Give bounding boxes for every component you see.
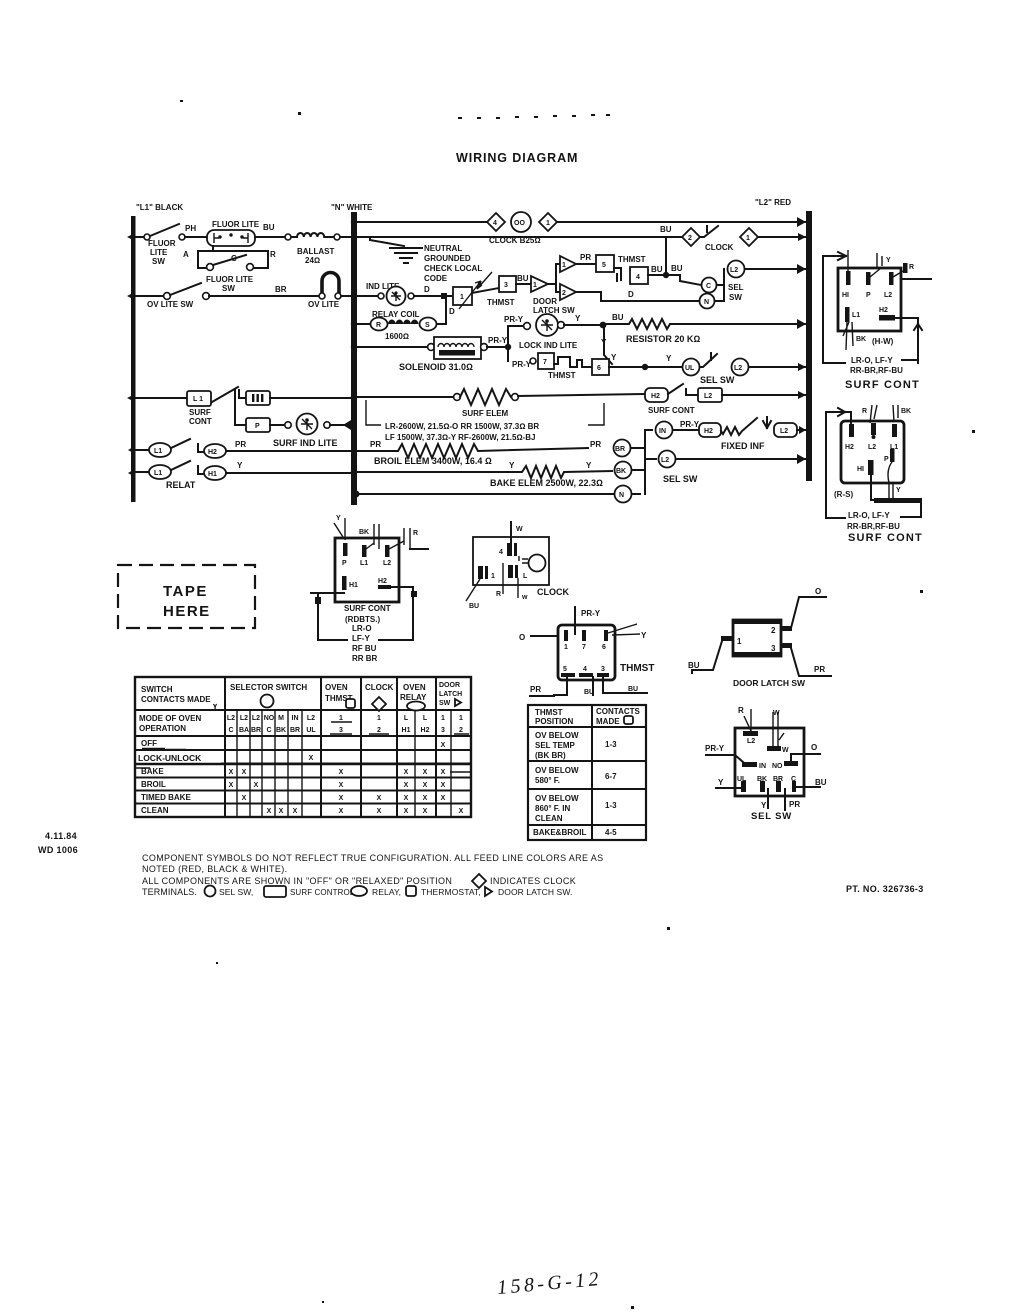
box surf cont rdbts (335, 538, 399, 602)
wire solenoid row from N bus (357, 346, 428, 348)
svg-text:L1: L1 (154, 448, 162, 455)
svg-text:L2: L2 (383, 560, 391, 567)
svg-text:W: W (516, 526, 523, 533)
svg-text:6: 6 (597, 365, 601, 372)
svg-text:SEL SW,: SEL SW, (219, 887, 253, 897)
svg-text:S: S (425, 322, 430, 329)
wire BU junction up to clock diamond 2 (665, 238, 667, 275)
table thmst position (528, 705, 646, 840)
svg-text:TIMED BAKE: TIMED BAKE (141, 793, 191, 802)
svg-text:OVEN: OVEN (325, 683, 348, 692)
wire BU to sel sw C (680, 275, 701, 285)
svg-text:C: C (706, 283, 711, 290)
svg-text:"N" WHITE: "N" WHITE (331, 203, 373, 212)
wire P leads (888, 462, 893, 498)
svg-text:HI: HI (857, 466, 864, 473)
svg-text:NO: NO (264, 715, 275, 722)
svg-text:BR: BR (290, 727, 300, 734)
svg-text:L2: L2 (704, 393, 712, 400)
svg-text:L2: L2 (240, 715, 248, 722)
svg-text:O: O (519, 633, 525, 642)
wire L1 leads down (843, 322, 853, 350)
svg-text:CONTACTS MADE: CONTACTS MADE (141, 695, 211, 704)
svg-text:X: X (293, 808, 298, 815)
pin 1 (564, 630, 568, 641)
svg-text:MADE: MADE (596, 717, 620, 726)
svg-text:1-3: 1-3 (605, 740, 617, 749)
svg-text:O: O (811, 743, 817, 752)
wire broil row from L1 relay (135, 449, 148, 451)
svg-text:R: R (909, 264, 914, 271)
inductor BALLAST 24ohm (292, 236, 297, 238)
svg-text:3: 3 (441, 727, 445, 734)
svg-text:FLUOR LITE: FLUOR LITE (206, 275, 254, 284)
clock pictorial (466, 522, 569, 610)
svg-text:PR-Y: PR-Y (488, 336, 508, 345)
wire P to surf ind lite (270, 424, 285, 426)
svg-text:H2: H2 (208, 449, 217, 456)
svg-text:X: X (423, 795, 428, 802)
svg-text:24Ω: 24Ω (305, 256, 320, 265)
svg-text:SURF CONT: SURF CONT (848, 532, 923, 544)
svg-text:COMPONENT SYMBOLS DO NOT REFLE: COMPONENT SYMBOLS DO NOT REFLECT TRUE CO… (142, 853, 603, 863)
svg-text:DOOR: DOOR (533, 297, 557, 306)
resistor SURF ELEM (454, 394, 461, 401)
svg-text:BK: BK (276, 727, 286, 734)
svg-text:BU: BU (469, 603, 479, 610)
surf control unit R-S (826, 405, 923, 544)
svg-text:1: 1 (533, 282, 537, 289)
svg-text:BROIL ELEM 3400W, 16.4 Ω: BROIL ELEM 3400W, 16.4 Ω (374, 456, 492, 466)
thermostat contact box 5 (596, 255, 614, 272)
relay contact L1 (surf cont) (187, 391, 211, 406)
pin 6 (604, 630, 608, 641)
sel sw contact BR (614, 440, 631, 457)
thermostat contact box 3 (499, 276, 516, 292)
wire ind-lite row from N bus (357, 295, 377, 297)
svg-text:OO: OO (514, 220, 525, 227)
svg-text:Y: Y (666, 354, 672, 363)
wire Y lead (870, 253, 882, 277)
svg-text:1: 1 (562, 262, 566, 269)
switch clock contact (700, 226, 718, 237)
wire to lock ind lite (508, 325, 523, 327)
stray dotted marks top (180, 100, 975, 1309)
svg-text:H1: H1 (349, 582, 358, 589)
svg-text:2: 2 (459, 727, 463, 734)
svg-text:PR-Y: PR-Y (705, 744, 725, 753)
svg-text:"L2" RED: "L2" RED (755, 198, 791, 207)
switch blade (212, 387, 238, 402)
svg-text:H1: H1 (208, 471, 217, 478)
svg-text:SOLENOID 31.0Ω: SOLENOID 31.0Ω (399, 362, 473, 372)
svg-text:1-3: 1-3 (605, 801, 617, 810)
svg-text:WIRING DIAGRAM: WIRING DIAGRAM (456, 151, 578, 165)
wire to lamp (185, 236, 207, 238)
door latch switch pictorial (688, 587, 831, 688)
sel sw contact L2 (728, 261, 745, 278)
wire HI lead down and right (871, 475, 921, 517)
svg-text:X: X (229, 782, 234, 789)
wire riser to III and P (235, 390, 246, 425)
svg-text:RR BR: RR BR (352, 654, 378, 663)
svg-text:X: X (423, 808, 428, 815)
solenoid coil 31 ohm (428, 344, 435, 351)
wire triangle2 to N contact (576, 292, 699, 301)
svg-text:3: 3 (771, 644, 776, 653)
svg-text:POSITION: POSITION (535, 717, 573, 726)
switch FLUOR LITE SW (second, lamp bypass) (198, 246, 268, 268)
svg-text:SEL SW: SEL SW (751, 811, 792, 822)
svg-text:PR: PR (530, 685, 541, 694)
svg-text:BU: BU (517, 274, 529, 283)
symbol door latch triangle (485, 887, 492, 896)
svg-text:X: X (423, 769, 428, 776)
switch OV LITE SW (164, 293, 171, 300)
wire Y vertical from BU junction (604, 326, 612, 364)
svg-text:P: P (884, 456, 889, 463)
svg-text:6: 6 (602, 644, 606, 651)
svg-text:CLOCK: CLOCK (705, 243, 734, 252)
wire solenoid to junction (487, 346, 508, 348)
svg-text:4: 4 (499, 549, 503, 556)
svg-text:X: X (377, 795, 382, 802)
svg-text:3: 3 (339, 727, 343, 734)
svg-text:CONT: CONT (189, 417, 212, 426)
symbol clock diamond (472, 874, 486, 888)
relay contact H1 (204, 466, 226, 480)
svg-text:INDICATES CLOCK: INDICATES CLOCK (490, 876, 576, 886)
svg-text:SURF ELEM: SURF ELEM (462, 409, 509, 418)
svg-text:N: N (619, 492, 624, 499)
resistor BAKE ELEM (357, 466, 612, 478)
pin 1 lead (721, 636, 733, 641)
svg-text:SEL SW: SEL SW (663, 474, 698, 484)
svg-text:LF 1500W, 37.3Ω-Y RF-2600W: LF 1500W, 37.3Ω-Y RF-2600W, 21.5Ω-BJ (385, 433, 535, 442)
svg-text:P: P (866, 292, 871, 299)
svg-text:L2: L2 (661, 457, 669, 464)
svg-text:BR: BR (275, 285, 287, 294)
svg-text:LITE: LITE (150, 248, 168, 257)
svg-text:DOOR LATCH SW: DOOR LATCH SW (733, 678, 806, 688)
motor clock (double circle) (511, 212, 531, 232)
resistor RESISTOR 20 K (607, 319, 806, 329)
wire H2 top arrow bracket (826, 408, 851, 518)
svg-text:1: 1 (441, 715, 445, 722)
svg-text:FIXED INF: FIXED INF (721, 441, 765, 451)
sel sw contact C (702, 278, 717, 293)
relay contact L2 (686, 389, 698, 395)
pin L1 (892, 424, 897, 437)
svg-text:PR: PR (235, 440, 246, 449)
wire III to N bus (surf elem feed) (270, 397, 351, 399)
svg-text:BK: BK (856, 336, 866, 343)
svg-text:NOTED (RED, BLACK & WHITE).: NOTED (RED, BLACK & WHITE). (142, 864, 287, 874)
table frame (135, 677, 471, 817)
svg-text:WD 1006: WD 1006 (38, 845, 78, 855)
clock terminal diamond 1b (740, 228, 758, 246)
svg-text:BU: BU (688, 661, 700, 670)
contact link 7-6 (554, 357, 592, 367)
svg-text:1: 1 (460, 294, 464, 301)
svg-text:PT. NO. 326736-3: PT. NO. 326736-3 (846, 884, 924, 894)
pin H1 (342, 576, 347, 590)
svg-text:PR: PR (580, 253, 591, 262)
box door latch sw (733, 620, 781, 656)
wire to surf cont H2 (518, 394, 645, 396)
svg-text:BAKE ELEM 2500W, 22.3Ω: BAKE ELEM 2500W, 22.3Ω (490, 478, 603, 488)
svg-text:X: X (404, 795, 409, 802)
svg-text:ALL COMPONENTS ARE SHOWN IN ": ALL COMPONENTS ARE SHOWN IN "OFF" OR "RE… (142, 876, 452, 886)
pin L1 (845, 307, 850, 322)
wire bus N (middle vertical) (351, 212, 357, 505)
svg-text:X: X (441, 795, 446, 802)
svg-text:5: 5 (563, 666, 567, 673)
svg-text:1: 1 (564, 644, 568, 651)
svg-text:L2: L2 (747, 738, 755, 745)
resistor BROIL ELEM (357, 444, 588, 458)
svg-text:X: X (423, 782, 428, 789)
wire w lead (517, 578, 519, 598)
svg-text:L: L (523, 573, 528, 580)
svg-text:SURF CONT: SURF CONT (845, 379, 920, 391)
svg-text:X: X (309, 755, 314, 762)
pin L2 (871, 423, 876, 435)
wire to BU junction (564, 324, 603, 326)
svg-text:2: 2 (377, 727, 381, 734)
svg-text:2: 2 (771, 626, 776, 635)
svg-text:L2: L2 (227, 715, 235, 722)
pin 3 lead (781, 643, 792, 648)
pin L2 (889, 272, 894, 285)
wire L2 to bus (745, 268, 806, 270)
svg-text:D: D (449, 307, 455, 316)
svg-text:W: W (773, 710, 780, 717)
svg-text:R: R (862, 408, 867, 415)
svg-text:w: w (521, 594, 528, 601)
svg-text:L2: L2 (730, 267, 738, 274)
svg-text:580° F.: 580° F. (535, 776, 560, 785)
svg-text:OPERATION: OPERATION (139, 724, 186, 733)
sel sw contact BK (615, 462, 632, 479)
pin L2 with R lead (385, 545, 390, 557)
svg-text:OV BELOW: OV BELOW (535, 794, 579, 803)
svg-text:X: X (339, 782, 344, 789)
wire bus L2 (right vertical) (806, 211, 812, 481)
surf control (RDBTS) pictorial (311, 515, 428, 663)
svg-text:P: P (255, 423, 260, 430)
switch FLUOR LITE SW (first) (144, 234, 150, 240)
svg-text:1: 1 (491, 573, 495, 580)
svg-text:(H-W): (H-W) (872, 337, 894, 346)
sel sw contact N2 (615, 486, 632, 503)
svg-text:MODE OF OVEN: MODE OF OVEN (139, 714, 201, 723)
svg-text:L: L (404, 715, 409, 722)
wire left bracket with arrow (823, 252, 846, 363)
svg-text:PR-Y: PR-Y (581, 609, 601, 618)
svg-text:BR: BR (251, 727, 261, 734)
svg-text:FLUOR LITE: FLUOR LITE (212, 220, 260, 229)
svg-text:R: R (738, 706, 744, 715)
sel sw contact IN (656, 422, 673, 439)
selector switch pictorial (705, 706, 827, 822)
svg-text:IN: IN (759, 763, 766, 770)
wire surf-cont row from L1 bus (135, 397, 187, 399)
pin HI (868, 460, 874, 475)
svg-text:SURF: SURF (189, 408, 211, 417)
svg-text:LR-2600W, 21.5Ω-O RR 1500W,: LR-2600W, 21.5Ω-O RR 1500W, 37.3Ω BR (385, 422, 539, 431)
wire box1 to box3 (472, 288, 499, 293)
svg-text:L1: L1 (360, 560, 368, 567)
pin L (508, 565, 513, 578)
svg-text:CODE: CODE (424, 274, 448, 283)
svg-text:SW: SW (222, 284, 235, 293)
svg-text:SW: SW (152, 257, 165, 266)
pin P (866, 272, 871, 285)
svg-text:1: 1 (746, 235, 750, 242)
svg-text:DOOR: DOOR (439, 682, 460, 689)
svg-text:C: C (228, 727, 233, 734)
wire diamond to L2 bus (758, 236, 806, 238)
wire second row from N bus (357, 236, 682, 238)
wire PR lead bottom (784, 789, 786, 810)
switch sel sw blade (700, 353, 717, 367)
box thmst (558, 625, 615, 680)
svg-text:7: 7 (582, 644, 586, 651)
wire split to triangles (548, 264, 559, 292)
svg-text:Y: Y (761, 801, 767, 810)
wire neutral row to N contact (357, 493, 613, 495)
svg-text:BR: BR (615, 446, 625, 453)
switch blade (668, 384, 683, 394)
svg-text:RR-BR,RF-BU: RR-BR,RF-BU (847, 522, 900, 531)
clock terminal diamond 2 (682, 228, 700, 246)
svg-text:X: X (404, 769, 409, 776)
sel sw contact UL (683, 359, 700, 376)
svg-text:BU: BU (628, 686, 638, 693)
svg-text:X: X (377, 808, 382, 815)
svg-text:IN: IN (292, 715, 299, 722)
arrow down (763, 417, 771, 428)
svg-text:BU: BU (651, 265, 663, 274)
svg-text:3: 3 (504, 282, 508, 289)
pin 7 (582, 630, 586, 641)
svg-text:CONTACTS: CONTACTS (596, 707, 641, 716)
svg-text:DOOR LATCH SW.: DOOR LATCH SW. (498, 887, 572, 897)
svg-text:R: R (376, 322, 381, 329)
svg-text:RF BU: RF BU (352, 644, 377, 653)
svg-text:CLEAN: CLEAN (535, 814, 563, 823)
svg-text:1: 1 (459, 715, 463, 722)
svg-text:1: 1 (377, 715, 381, 722)
wire W lead (510, 522, 512, 555)
wire Y lead bottom (767, 789, 769, 808)
wire IN to H2 fixed inf (673, 429, 699, 431)
svg-text:FLUOR: FLUOR (148, 239, 176, 248)
svg-text:BK: BK (359, 529, 369, 536)
pin P (343, 543, 348, 556)
svg-text:P: P (342, 560, 347, 567)
svg-text:W: W (782, 747, 789, 754)
box surf cont (H-W) (838, 268, 901, 331)
svg-text:THMST: THMST (618, 255, 646, 264)
svg-text:H2: H2 (879, 307, 888, 314)
svg-text:BALLAST: BALLAST (297, 247, 334, 256)
wire BU lead (592, 677, 594, 695)
svg-text:H2: H2 (651, 393, 660, 400)
svg-text:X: X (441, 769, 446, 776)
svg-text:X: X (404, 808, 409, 815)
svg-text:7: 7 (543, 359, 547, 366)
pin L1 with BK lead (362, 545, 367, 557)
svg-text:LATCH: LATCH (439, 691, 462, 698)
switch blade (171, 439, 190, 448)
svg-text:SURF CONTROL,: SURF CONTROL, (290, 888, 357, 897)
wire to thmst box 1 (414, 295, 452, 297)
svg-text:SURF IND LITE: SURF IND LITE (273, 438, 338, 448)
pin H1 (846, 271, 851, 285)
wire PR lead (530, 677, 567, 696)
svg-text:L2: L2 (252, 715, 260, 722)
wire H2 out (895, 318, 922, 363)
svg-text:OVEN: OVEN (403, 683, 426, 692)
lamp OV LITE (322, 273, 339, 295)
thermostat pictorial (519, 607, 654, 696)
svg-text:LR-O: LR-O (352, 624, 372, 633)
svg-text:SURF CONT: SURF CONT (344, 604, 391, 613)
svg-text:D: D (628, 290, 634, 299)
svg-text:D: D (424, 285, 430, 294)
svg-text:CHECK LOCAL: CHECK LOCAL (424, 264, 482, 273)
wire lamp to ballast (255, 236, 284, 238)
pin 1 (478, 566, 483, 579)
svg-text:6-7: 6-7 (605, 772, 617, 781)
clock terminal diamond 1 (539, 213, 557, 231)
svg-text:PH: PH (185, 224, 196, 233)
svg-text:X: X (339, 808, 344, 815)
relay triangle 1 upper (560, 256, 576, 272)
switch blade (171, 461, 190, 470)
svg-text:SEL SW: SEL SW (700, 375, 735, 385)
svg-text:RR-BR,RF-BU: RR-BR,RF-BU (850, 366, 903, 375)
svg-text:LATCH SW: LATCH SW (533, 306, 575, 315)
wire H2 to N bus (226, 450, 351, 452)
svg-text:X: X (339, 795, 344, 802)
svg-text:UL: UL (306, 727, 316, 734)
table frame (528, 705, 646, 840)
svg-text:THMST: THMST (535, 708, 563, 717)
svg-text:L2: L2 (780, 428, 788, 435)
relay contact H2 (204, 444, 226, 458)
wire box6 to UL (609, 366, 683, 368)
svg-text:L2: L2 (884, 292, 892, 299)
selector subheads (227, 715, 463, 734)
svg-text:L2: L2 (307, 715, 315, 722)
svg-text:(RDBTS.): (RDBTS.) (345, 615, 380, 624)
svg-text:LOCK IND LITE: LOCK IND LITE (519, 341, 578, 350)
svg-text:4: 4 (493, 220, 497, 227)
symbol relay ellipse (351, 886, 367, 896)
svg-text:Y: Y (586, 461, 592, 470)
svg-text:H2: H2 (704, 428, 713, 435)
thermostat contact box 4 (630, 267, 648, 284)
lamp LOCK IND LITE (536, 314, 558, 336)
svg-text:1600Ω: 1600Ω (385, 332, 409, 341)
svg-text:RELAT: RELAT (166, 480, 196, 490)
svg-text:1: 1 (546, 220, 550, 227)
symbol surf control rect (264, 886, 286, 897)
wire bus L1 (left vertical) (131, 216, 136, 502)
